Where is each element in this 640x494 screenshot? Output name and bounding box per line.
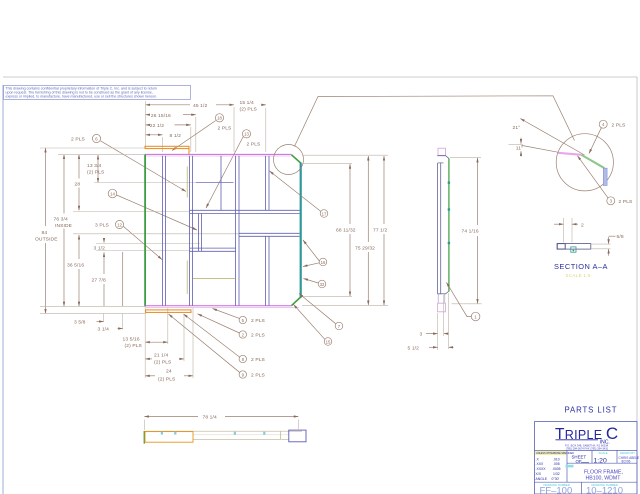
svg-text:2 PLS: 2 PLS — [218, 126, 233, 132]
svg-text:3 PLS: 3 PLS — [95, 223, 110, 229]
member V6 — [220, 156, 222, 211]
olive stub upper — [186, 167, 188, 198]
svg-text:21°: 21° — [513, 125, 521, 131]
section bar — [557, 244, 591, 250]
member H3 — [190, 247, 236, 249]
bottom view orange box — [145, 432, 193, 443]
dim 76 3/4 INSIDE (left) — [54, 155, 73, 307]
sheet left border — [2, 85, 4, 494]
title block h-line under logo — [535, 449, 638, 451]
dim 8 1/2 (top) — [146, 133, 182, 152]
callout 7 — [299, 294, 343, 330]
svg-text:5/8: 5/8 — [617, 234, 624, 240]
svg-text:22 1/2: 22 1/2 — [150, 123, 164, 129]
svg-text:INSIDE: INSIDE — [55, 223, 73, 229]
svg-text:.010: .010 — [553, 457, 560, 461]
right ext y=163.4 — [302, 162, 352, 164]
dim 77 1/2 (right) — [373, 156, 387, 305]
svg-text:32: 32 — [320, 282, 325, 287]
svg-text:SCALE: SCALE — [599, 451, 608, 455]
callout 17 — [270, 171, 328, 217]
side view left double line — [437, 163, 439, 294]
extension line y=243.5 — [96, 243, 200, 245]
dim 3 1/4 (below left) — [98, 314, 123, 333]
svg-text:2 PLS: 2 PLS — [619, 199, 634, 205]
svg-text:45 1/2: 45 1/2 — [193, 103, 207, 109]
dim 3 1/2 / 27 7/8 (left) — [92, 238, 106, 306]
tolerance header yellow — [535, 451, 567, 455]
svg-text:UNLESS OTHERWISE SPECIFIED: UNLESS OTHERWISE SPECIFIED — [536, 452, 574, 455]
svg-text:2 PLS: 2 PLS — [251, 373, 266, 379]
member V4 lower — [265, 236, 267, 305]
svg-text:OF: OF — [576, 459, 582, 464]
side view teal ticks — [448, 182, 450, 245]
svg-text:SECTION A–A: SECTION A–A — [554, 262, 608, 271]
extension line y=148 — [40, 147, 144, 149]
title block h-line above number row — [535, 481, 638, 483]
svg-text:13 3/4: 13 3/4 — [87, 163, 101, 169]
frame top edge magenta — [145, 153, 292, 155]
svg-text:8/2/06: 8/2/06 — [622, 460, 631, 464]
member V4 upper — [265, 156, 267, 211]
bottom view right end box — [289, 430, 306, 442]
callout 5 — [213, 309, 266, 325]
svg-text:P.O. BOX 548, SABETHA, KS 665: P.O. BOX 548, SABETHA, KS 66534 (785) 28… — [565, 443, 609, 450]
dim 28 / 36 5/16 (left) — [67, 155, 84, 307]
dim 45 1/2 (top) — [146, 103, 235, 152]
extension line y=154.7 — [58, 154, 144, 156]
extension line y=250.5 — [96, 250, 190, 252]
callout 15 — [294, 305, 332, 346]
svg-text:84: 84 — [42, 230, 48, 236]
bottom-right chamfer green — [292, 297, 301, 306]
svg-text:1/32: 1/32 — [553, 472, 560, 476]
frame bottom edge magenta — [145, 305, 292, 307]
svg-text:12: 12 — [117, 222, 122, 227]
confidential note box — [4, 86, 191, 100]
svg-text:8 1/2: 8 1/2 — [170, 133, 182, 139]
member H2 — [239, 232, 300, 234]
svg-text:ANGLE: ANGLE — [536, 477, 548, 481]
svg-text:2 PLS: 2 PLS — [251, 357, 266, 363]
svg-text:HB100, WDMT: HB100, WDMT — [586, 476, 622, 482]
svg-text:68 11/32: 68 11/32 — [336, 228, 356, 234]
callout 9 — [169, 314, 266, 379]
svg-text:17: 17 — [322, 211, 327, 216]
svg-text:13: 13 — [244, 132, 249, 137]
dim 5/8 (section) — [609, 234, 624, 256]
dim 26 15/16 (top) — [146, 113, 196, 152]
dim line at x=122.7 (left) — [122, 252, 124, 306]
svg-text:(2) PLS: (2) PLS — [158, 376, 176, 382]
svg-text:(2) PLS: (2) PLS — [154, 359, 172, 365]
detail chamfer green — [582, 155, 605, 168]
detail leader polyline — [294, 96, 574, 147]
member H4 olive — [193, 278, 236, 280]
svg-text:PARTS LIST: PARTS LIST — [565, 406, 618, 415]
title block v-line number divider — [581, 482, 583, 494]
member H0 — [196, 181, 234, 183]
svg-text:28: 28 — [75, 181, 81, 187]
extension line y=233.8 — [73, 233, 239, 235]
detail circle on plan (small) — [274, 145, 304, 175]
svg-text:express or implied, to manufac: express or implied, to manufacture, have… — [6, 94, 158, 98]
svg-text:3 1/4: 3 1/4 — [98, 327, 110, 333]
callout 8 — [184, 314, 266, 363]
callout 16 — [303, 240, 327, 267]
right ext y=305.6 — [302, 305, 388, 307]
address lines — [565, 443, 609, 450]
orange bottom bar — [146, 310, 191, 313]
svg-text:77 1/2: 77 1/2 — [373, 228, 387, 234]
member V5 — [197, 214, 199, 252]
svg-text:76 3/4: 76 3/4 — [54, 217, 68, 223]
bottom view cyan ticks — [161, 432, 266, 435]
bottom view mid divider — [279, 431, 281, 439]
confidential note text — [6, 86, 158, 98]
svg-text:15 1/4: 15 1/4 — [240, 100, 254, 106]
svg-text:DRAWN BY: DRAWN BY — [620, 451, 635, 455]
svg-text:11°: 11° — [516, 146, 523, 152]
title block v-line sheet/scale — [591, 450, 593, 463]
detail side bar periwinkle — [603, 168, 607, 185]
svg-text:(2) PLS: (2) PLS — [87, 169, 105, 175]
svg-text:(2) PLS: (2) PLS — [125, 343, 143, 349]
svg-text:24: 24 — [166, 369, 172, 375]
dim 13 3/4 (2) PLS (left) — [87, 155, 105, 183]
side view bottom cap — [437, 291, 449, 294]
extension verticals below plan — [144, 308, 146, 378]
dim 74 1/16 (side view) — [450, 158, 482, 304]
dim 21 1/4 (2) PLS (below) — [145, 352, 184, 365]
member V1 — [162, 156, 164, 306]
callout 6 with 2 PLS — [71, 134, 186, 191]
svg-text:10–1210: 10–1210 — [586, 485, 623, 494]
svg-text:78 1/4: 78 1/4 — [203, 415, 217, 421]
callout 1 (side view) — [447, 283, 480, 321]
side view top pink cap — [438, 148, 446, 155]
orange top bar — [145, 146, 189, 148]
title block v-line tolerance — [566, 450, 568, 482]
bottom view green end — [143, 431, 145, 444]
svg-text:27 7/8: 27 7/8 — [92, 278, 106, 284]
svg-text:5 1/2: 5 1/2 — [408, 346, 420, 352]
TRIPLE C logo — [555, 424, 619, 446]
svg-text:2: 2 — [581, 222, 584, 228]
side view bottom pink cap — [438, 303, 446, 312]
dim 78 1/4 — [144, 415, 298, 430]
svg-text:OUTSIDE: OUTSIDE — [35, 237, 58, 243]
callout 14 — [108, 189, 197, 230]
dim 3 5/8 (below left) — [74, 314, 104, 326]
section left square — [557, 244, 565, 250]
section teal piece — [571, 247, 576, 252]
dim 2 (section) — [554, 218, 584, 243]
svg-text:.XXX: .XXX — [536, 462, 544, 466]
svg-text:21 1/4: 21 1/4 — [154, 352, 168, 358]
detail deck magenta — [558, 153, 582, 155]
bottom view bar outline — [144, 430, 302, 432]
svg-text:26 15/16: 26 15/16 — [151, 113, 171, 119]
svg-text:13 5/16: 13 5/16 — [123, 337, 140, 343]
sheet right edge — [636, 77, 638, 494]
dim 3 (side view) — [420, 295, 448, 350]
svg-text:1:20: 1:20 — [594, 457, 607, 464]
callout 3 — [578, 156, 634, 205]
tolerance table — [536, 457, 561, 481]
sheet top edge — [3, 76, 637, 78]
callout 13 — [206, 130, 261, 208]
svg-text:.XXXX: .XXXX — [536, 467, 547, 471]
svg-text:0°30': 0°30' — [552, 477, 560, 481]
callout 32 — [304, 279, 326, 288]
dim 68 11/32 (right) — [336, 164, 356, 296]
dim 15 1/4 (2) PLS (top) — [240, 100, 266, 152]
svg-text:16: 16 — [321, 260, 326, 265]
callout 18 — [172, 114, 232, 151]
extension line y=313.4 — [40, 312, 146, 314]
svg-text:2 PLS: 2 PLS — [71, 137, 86, 143]
detail circle — [556, 134, 613, 191]
callout 2 — [198, 314, 266, 339]
svg-text:2 PLS: 2 PLS — [251, 318, 266, 324]
member H1 — [190, 209, 300, 211]
svg-text:3: 3 — [420, 332, 423, 338]
dim 22 1/2 (top) — [146, 123, 191, 152]
svg-text:74 1/16: 74 1/16 — [462, 229, 479, 235]
right ext y=155.2 — [302, 154, 388, 156]
top dim extension line — [145, 101, 147, 148]
svg-text:18: 18 — [217, 116, 222, 121]
svg-text:(2) PLS: (2) PLS — [240, 106, 258, 112]
extension line y=306.3 — [40, 305, 146, 307]
side view right green edge — [448, 158, 450, 291]
extension line y=182.5 — [94, 182, 196, 184]
svg-text:FF–100: FF–100 — [540, 485, 573, 494]
svg-text:2 PLS: 2 PLS — [251, 333, 266, 339]
svg-text:15: 15 — [326, 339, 331, 344]
frame left edge green — [144, 154, 146, 306]
extension line y=211.5 — [73, 211, 190, 213]
title block v-line scale/drawn — [616, 450, 618, 463]
svg-text:X/X: X/X — [536, 472, 542, 476]
svg-text:2 PLS: 2 PLS — [612, 122, 627, 128]
top-right chamfer green — [292, 155, 301, 163]
side view top cap line — [437, 156, 449, 159]
svg-text:3 5/8: 3 5/8 — [74, 320, 86, 326]
svg-text:SCALE 1:5: SCALE 1:5 — [566, 273, 591, 278]
frame right edge teal — [300, 163, 302, 298]
dim 24 (2) PLS (below) — [145, 369, 193, 383]
member V2 — [189, 156, 191, 306]
svg-text:75 29/32: 75 29/32 — [355, 245, 375, 251]
member V3 — [235, 156, 237, 306]
callout 12 with 3 PLS — [95, 220, 162, 259]
dim 75 29/32 (right) — [355, 156, 375, 305]
dim 5 1/2 (side view) — [408, 293, 454, 352]
right ext y=296.6 — [302, 296, 352, 298]
angle 21 line — [520, 119, 584, 156]
svg-text:2 PLS: 2 PLS — [247, 142, 262, 148]
title block outer box — [535, 422, 638, 494]
svg-text:.0005: .0005 — [552, 467, 561, 471]
callout 4 — [589, 120, 626, 153]
section right ext lines — [591, 243, 611, 245]
dim 84 OUTSIDE (left) — [35, 148, 58, 313]
svg-text:36 5/16: 36 5/16 — [67, 263, 84, 269]
svg-text:14: 14 — [110, 191, 115, 196]
dim 13 5/16 (2) PLS (below) — [123, 337, 168, 350]
olive stub lower — [186, 261, 188, 295]
title block h-line under sheet row — [567, 462, 637, 464]
angle 11 apparatus — [509, 138, 559, 157]
svg-text:.005: .005 — [553, 462, 560, 466]
